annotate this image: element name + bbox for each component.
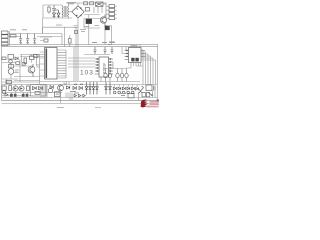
- module A1: [146, 85, 152, 91]
- U3 right pins: [57, 50, 66, 78]
- LED D16: [92, 82, 95, 95]
- diode D23: [74, 94, 77, 97]
- label marks upper board: [80, 30, 86, 32]
- resistor R17: [22, 94, 25, 97]
- wire left riser: [2, 54, 40, 84]
- diode bank D31: [118, 87, 121, 90]
- label AC: [67, 2, 76, 3]
- wire U4 left feeds: [68, 58, 95, 67]
- label marks bottom: [70, 92, 79, 94]
- LED D12: [73, 84, 77, 90]
- U3 left pins: [40, 52, 45, 76]
- wire risers x64: [65, 27, 67, 78]
- wire snubber loop: [74, 19, 101, 29]
- IC U3: [45, 48, 58, 80]
- resistor R8: [27, 86, 30, 91]
- resistor R27: [16, 62, 20, 65]
- resistor R22: [86, 8, 90, 12]
- wire stub bottom: [57, 106, 101, 108]
- wire staircase left: [41, 85, 72, 101]
- U5 right pins: [141, 51, 145, 57]
- wire divider: [138, 92, 140, 100]
- IC U4: [99, 57, 109, 77]
- varistor RV1: [86, 19, 92, 24]
- LED D17: [96, 82, 99, 95]
- label U5: [109, 42, 137, 46]
- U4 right pin pads: [109, 59, 114, 74]
- U5 left pins: [125, 51, 129, 60]
- relay K3: [2, 86, 6, 90]
- resistor R23: [22, 63, 25, 66]
- LED D18: [105, 82, 108, 95]
- sub-circuit box: [31, 85, 47, 97]
- U5 top pins: [131, 45, 140, 48]
- watermark text: [147, 102, 159, 107]
- capacitor row E2: [108, 73, 111, 78]
- fuse F1: [96, 2, 104, 6]
- diode D22: [15, 57, 18, 60]
- bus line C: [2, 92, 63, 94]
- wire AC top: [66, 2, 96, 4]
- resistor R20: [146, 93, 149, 97]
- diode D21: [136, 87, 139, 90]
- capacitor C1: [52, 5, 56, 13]
- trimmer RV2: [138, 86, 144, 94]
- board outline: [2, 45, 158, 101]
- connector J1: [2, 31, 9, 34]
- label caps row: [10, 25, 62, 30]
- resistor R5: [2, 57, 6, 60]
- LED D15: [89, 82, 92, 95]
- resistor R6: [6, 81, 12, 84]
- module A2: [128, 94, 134, 98]
- diode D1: [53, 13, 56, 18]
- resistor R21: [34, 55, 39, 58]
- diode D8: [33, 86, 37, 90]
- resistor R7: [9, 86, 12, 91]
- resistor R18: [26, 94, 29, 97]
- connector J2 pin3: [109, 13, 115, 16]
- wire secondary drops: [84, 7, 102, 15]
- node labels top bus: [92, 43, 115, 45]
- relay K2: [8, 55, 14, 60]
- diode D10: [50, 85, 53, 88]
- diode D25: [83, 94, 86, 97]
- wire second row joins: [2, 93, 33, 96]
- wire right drops: [153, 91, 156, 98]
- wire center risers: [74, 27, 78, 81]
- capacitor C6: [103, 47, 106, 54]
- wire middle-left bus: [8, 34, 62, 37]
- capacitor row E4: [120, 73, 123, 78]
- transformer T1: [61, 6, 64, 17]
- resistor R1: [48, 7, 50, 12]
- wire bottom rail: [2, 84, 157, 86]
- wire drop left: [42, 18, 44, 34]
- capacitor row E1: [104, 73, 107, 78]
- resistor R3: [30, 56, 35, 60]
- bus line A: [2, 46, 158, 48]
- bus line E: [2, 99, 158, 101]
- capacitor C5: [93, 47, 96, 54]
- bus line B: [20, 54, 110, 56]
- LED D13: [79, 84, 83, 90]
- watermark dot: [157, 100, 159, 102]
- capacitor row E5: [125, 73, 128, 78]
- U5 bottom pins: [127, 63, 144, 69]
- wire U5 feeds: [122, 47, 126, 54]
- wire mid join: [37, 28, 62, 45]
- connector J2 pin2: [109, 9, 115, 12]
- wire risers bottom-right: [115, 85, 137, 88]
- diode D24: [78, 94, 81, 97]
- connector J3: [55, 92, 61, 97]
- LED D14: [85, 82, 88, 95]
- resistor R26: [75, 31, 78, 34]
- wire mesh mid-left: [14, 55, 44, 81]
- transistor Q10: [48, 88, 52, 92]
- diode D20: [5, 93, 8, 96]
- transistor Q1: [100, 17, 106, 23]
- label marks left: [15, 70, 19, 72]
- wire drops into board: [89, 26, 112, 45]
- watermark logo: [141, 99, 148, 107]
- wire risers bottom-left: [4, 85, 28, 87]
- diode D9: [39, 86, 43, 90]
- wire left mesh: [2, 55, 40, 83]
- svg-text:103: 103: [80, 70, 94, 77]
- IC U5: [129, 48, 142, 63]
- resistor R19: [142, 93, 145, 97]
- LED D6: [13, 86, 18, 91]
- wire J2 feed: [98, 3, 106, 21]
- resistor R9: [35, 92, 40, 95]
- diode bank D33: [127, 87, 130, 90]
- label marks bottom-right row: [120, 94, 126, 96]
- wire center bottom: [40, 82, 140, 85]
- label fuse mark: [84, 26, 99, 27]
- wire lower-left: [2, 79, 18, 84]
- connector J2 pin1: [109, 5, 115, 8]
- capacitor row E3: [116, 73, 119, 78]
- capacitor C7: [110, 47, 113, 54]
- label marks mid: [36, 65, 40, 67]
- U4 left pin pads: [95, 59, 99, 74]
- terminal label L: [84, 2, 88, 5]
- resistor R4: [24, 58, 27, 64]
- relay K1: [105, 26, 109, 30]
- diode bank D30: [113, 87, 116, 90]
- diode bank D34: [131, 87, 134, 90]
- wire right bus verticals: [143, 50, 156, 85]
- resistor R25: [69, 39, 72, 44]
- transistor Q3: [8, 69, 14, 75]
- resistor R15: [10, 94, 13, 97]
- capacitor C3: [26, 34, 29, 44]
- bus line F: [2, 103, 159, 105]
- diode D5: [9, 65, 14, 68]
- bridge rectifier BR1: [72, 6, 84, 18]
- transistor Q4: [58, 85, 64, 91]
- LED D7: [19, 86, 24, 91]
- bus line D: [2, 97, 158, 99]
- LED D19: [109, 82, 112, 95]
- capacitor C4: [33, 34, 36, 44]
- resistor R16: [14, 94, 17, 97]
- transistor Q2: [28, 66, 35, 73]
- diode D11: [67, 86, 70, 89]
- diode bank D32: [122, 87, 125, 90]
- terminal label N: [90, 2, 94, 5]
- wire cap row feed: [99, 62, 127, 82]
- connector J2 pin4: [109, 17, 115, 20]
- capacitor C2: [19, 34, 22, 44]
- resistor R2: [10, 35, 16, 37]
- resistor R24: [44, 39, 48, 42]
- wire top-left loop: [43, 5, 72, 18]
- diode D2: [54, 10, 60, 18]
